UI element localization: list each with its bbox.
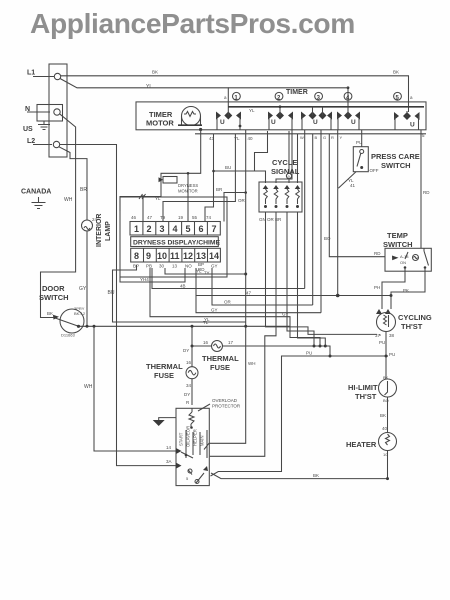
svg-text:T9: T9 bbox=[160, 215, 166, 220]
svg-text:PH: PH bbox=[374, 285, 380, 290]
svg-text:PU: PU bbox=[306, 351, 312, 356]
wire timer drop T5 bbox=[337, 130, 339, 189]
wire heater to bottom bbox=[387, 451, 389, 479]
svg-text:PROTECTOR: PROTECTOR bbox=[212, 404, 241, 409]
wire timer drop T1 bbox=[304, 130, 306, 289]
svg-text:BK: BK bbox=[393, 70, 399, 75]
wire YL dryness to motor run bbox=[165, 268, 246, 274]
svg-text:55: 55 bbox=[192, 215, 198, 220]
svg-text:4: 4 bbox=[173, 224, 178, 234]
timer contact U3 bbox=[301, 107, 332, 130]
timer cam 1 bbox=[233, 92, 241, 100]
wire door switch out bbox=[79, 325, 291, 328]
svg-text:19: 19 bbox=[178, 215, 184, 220]
svg-text:BR: BR bbox=[216, 187, 223, 192]
wire temp to cycling right bbox=[391, 269, 425, 309]
wire 43 drop bbox=[205, 134, 214, 222]
timer motor M bbox=[182, 107, 201, 126]
wire BR display pin 7 bbox=[224, 193, 246, 222]
svg-text:16: 16 bbox=[203, 340, 209, 345]
svg-text:RD: RD bbox=[423, 190, 430, 195]
svg-text:WH: WH bbox=[84, 384, 93, 390]
svg-text:YL: YL bbox=[204, 317, 210, 322]
svg-text:L2: L2 bbox=[27, 138, 35, 145]
lamp LS4 bbox=[295, 185, 301, 189]
svg-text:PU: PU bbox=[389, 352, 395, 357]
wire TF2 right bbox=[223, 346, 331, 356]
lamp LS1 bbox=[263, 185, 269, 189]
wire WH N to door switch bbox=[41, 114, 76, 312]
svg-text:8: 8 bbox=[134, 251, 139, 261]
dryness display outer box bbox=[120, 197, 227, 277]
svg-text:AppliancePartsPros.com: AppliancePartsPros.com bbox=[30, 7, 355, 39]
svg-text:BU: BU bbox=[108, 290, 115, 296]
svg-text:YL: YL bbox=[146, 84, 152, 90]
svg-text:13: 13 bbox=[172, 264, 178, 269]
timer contact U2 bbox=[268, 105, 293, 129]
svg-text:GY: GY bbox=[211, 264, 218, 269]
svg-text:ON: ON bbox=[400, 260, 406, 265]
svg-text:INTERIOR: INTERIOR bbox=[96, 214, 103, 247]
svg-text:L1: L1 bbox=[27, 70, 35, 77]
svg-text:7: 7 bbox=[212, 224, 217, 234]
svg-text:YH4: YH4 bbox=[140, 277, 149, 282]
svg-text:43: 43 bbox=[209, 136, 215, 141]
motor start contact bbox=[176, 448, 182, 469]
svg-text:TH'ST: TH'ST bbox=[401, 322, 423, 331]
svg-text:40: 40 bbox=[382, 426, 388, 431]
svg-text:R: R bbox=[186, 400, 190, 405]
motor centrifugal switch bbox=[188, 470, 204, 483]
svg-text:PRESS CARE: PRESS CARE bbox=[371, 152, 420, 161]
svg-text:US: US bbox=[23, 126, 33, 133]
wire cycling 37 to motor bbox=[379, 334, 381, 335]
svg-text:5: 5 bbox=[186, 224, 191, 234]
wire YL drop bbox=[163, 134, 235, 222]
svg-text:B: B bbox=[315, 135, 318, 140]
svg-text:WH: WH bbox=[64, 197, 73, 203]
svg-text:9: 9 bbox=[146, 251, 151, 261]
svg-text:7Y: 7Y bbox=[204, 271, 210, 276]
wire YH4 bbox=[120, 268, 185, 282]
svg-text:BK: BK bbox=[383, 375, 389, 380]
thermal fuse TF2 bbox=[212, 341, 223, 352]
svg-text:3: 3 bbox=[160, 224, 165, 234]
junction YL crossings bbox=[244, 325, 247, 328]
svg-text:11: 11 bbox=[170, 251, 180, 261]
dryness banner bbox=[131, 237, 219, 247]
wire timer drop T4 RD to temp switch bbox=[329, 134, 385, 257]
wire drop to display pin 2 bbox=[142, 197, 144, 222]
svg-text:DY: DY bbox=[183, 348, 189, 353]
svg-text:DRYNESS: DRYNESS bbox=[178, 183, 198, 188]
splice ticks bbox=[139, 194, 146, 199]
timer contact U5 bbox=[394, 95, 425, 138]
overload protector switch bbox=[189, 408, 194, 427]
svg-text:BK: BK bbox=[313, 473, 319, 478]
svg-text:Y: Y bbox=[340, 135, 343, 140]
svg-text:U: U bbox=[220, 119, 225, 126]
ground motor bbox=[159, 418, 176, 420]
junction lamp line bbox=[86, 325, 89, 328]
svg-text:3A: 3A bbox=[166, 459, 172, 464]
svg-text:U: U bbox=[351, 119, 356, 126]
svg-text:NO: NO bbox=[185, 264, 192, 269]
svg-text:74: 74 bbox=[206, 215, 212, 220]
svg-text:47: 47 bbox=[246, 291, 252, 296]
wire BK L1 to timer 5 bbox=[61, 76, 409, 112]
svg-text:4B: 4B bbox=[180, 284, 186, 289]
wire drop to display pin 5 bbox=[187, 173, 189, 221]
svg-text:12: 12 bbox=[183, 251, 193, 261]
wire TF2 left to door wire bbox=[192, 326, 212, 346]
svg-text:YL: YL bbox=[196, 269, 202, 274]
svg-text:LAMP: LAMP bbox=[105, 221, 112, 241]
svg-text:DOOR: DOOR bbox=[42, 284, 65, 293]
cycle signal out 2 to motor bbox=[210, 212, 276, 456]
dryness monitor tag bbox=[163, 177, 177, 184]
svg-text:TH'ST: TH'ST bbox=[355, 392, 377, 401]
wire timer drop T2 bbox=[312, 134, 314, 305]
wire BR L2 branch to interior lamp bbox=[59, 147, 87, 220]
svg-text:SWITCH: SWITCH bbox=[381, 161, 411, 170]
svg-text:40: 40 bbox=[248, 136, 254, 141]
wire RD timer to temp switch top bbox=[420, 130, 422, 249]
svg-text:MOTOR: MOTOR bbox=[146, 119, 174, 128]
svg-text:G: G bbox=[323, 135, 326, 140]
node N bbox=[37, 105, 63, 122]
svg-text:HEATER: HEATER bbox=[346, 440, 377, 449]
svg-text:5: 5 bbox=[186, 476, 189, 481]
svg-text:YL: YL bbox=[234, 136, 240, 141]
cycle signal out 3 bbox=[287, 212, 314, 346]
svg-text:SIGNAL: SIGNAL bbox=[271, 167, 300, 176]
wire hi-limit to heater bbox=[387, 397, 389, 433]
node 9 circled bbox=[286, 173, 291, 178]
svg-text:DRYNESS DISPLAY/CHIME: DRYNESS DISPLAY/CHIME bbox=[133, 240, 221, 247]
svg-text:a: a bbox=[410, 95, 413, 100]
svg-text:START: START bbox=[179, 432, 184, 446]
wire temp to cycling left bbox=[382, 269, 405, 309]
svg-text:SWITCH: SWITCH bbox=[383, 240, 413, 249]
timer cam 2 bbox=[275, 92, 283, 100]
svg-text:DY: DY bbox=[184, 392, 190, 397]
svg-text:PU: PU bbox=[379, 340, 385, 345]
svg-text:WH: WH bbox=[248, 361, 256, 366]
svg-text:PK: PK bbox=[403, 288, 409, 293]
svg-text:BK: BK bbox=[152, 70, 158, 75]
wire N lead bbox=[27, 111, 50, 113]
svg-text:GY: GY bbox=[282, 312, 289, 317]
svg-text:GY: GY bbox=[211, 308, 218, 313]
wire 4B bbox=[152, 268, 305, 289]
interior lamp LAMP1 bbox=[82, 220, 93, 231]
svg-text:BU: BU bbox=[225, 165, 231, 170]
svg-text:THERMAL: THERMAL bbox=[202, 354, 239, 363]
wire BU L2 to motor bbox=[60, 145, 176, 466]
svg-text:D11663: D11663 bbox=[61, 333, 75, 338]
svg-text:TIMER: TIMER bbox=[286, 89, 308, 96]
svg-text:17: 17 bbox=[228, 340, 234, 345]
timer cam 3 bbox=[315, 92, 323, 100]
motor box bbox=[176, 408, 209, 485]
svg-text:1: 1 bbox=[134, 224, 139, 234]
wire YL press care to T5 bbox=[338, 172, 356, 189]
dryness cells 8-14 bbox=[131, 248, 221, 262]
cycle signal out 4 bbox=[298, 212, 326, 346]
svg-text:BK-12: BK-12 bbox=[74, 311, 86, 316]
wire to cycle signal 3 bbox=[288, 131, 290, 183]
svg-text:GN OR BR: GN OR BR bbox=[259, 217, 282, 222]
svg-text:14: 14 bbox=[209, 251, 219, 261]
timer contact U4 bbox=[337, 111, 360, 130]
wire BR to cycle signal 2 bbox=[276, 130, 292, 183]
svg-text:THERMAL: THERMAL bbox=[146, 362, 183, 371]
svg-text:38: 38 bbox=[389, 333, 395, 338]
svg-text:41: 41 bbox=[350, 183, 356, 188]
svg-text:MONITOR: MONITOR bbox=[178, 189, 198, 194]
svg-text:A-18: A-18 bbox=[400, 254, 409, 259]
svg-text:a: a bbox=[224, 95, 227, 100]
wire timer drop T3 bbox=[320, 130, 322, 313]
svg-text:13: 13 bbox=[196, 251, 206, 261]
wire bottom BK motor to heater bbox=[211, 473, 388, 479]
svg-text:CANADA: CANADA bbox=[21, 189, 51, 196]
svg-text:CYCLE: CYCLE bbox=[272, 158, 297, 167]
svg-text:46: 46 bbox=[131, 215, 137, 220]
svg-text:RD: RD bbox=[374, 251, 381, 256]
lamp LS3 bbox=[284, 185, 290, 189]
svg-text:OR: OR bbox=[224, 300, 232, 305]
svg-text:OR: OR bbox=[238, 198, 246, 203]
svg-text:PB: PB bbox=[146, 264, 152, 269]
svg-text:CYCLING: CYCLING bbox=[398, 313, 432, 322]
press care switch SW-PC bbox=[353, 147, 368, 172]
svg-text:BR: BR bbox=[80, 187, 87, 193]
svg-text:HI-LIMIT: HI-LIMIT bbox=[348, 383, 378, 392]
dryness cells 1-7 bbox=[130, 222, 220, 236]
timer cam 5 bbox=[394, 92, 402, 100]
wire OR to cycle signal 4 bbox=[297, 134, 299, 183]
wire PU press care feed bbox=[361, 130, 363, 147]
cycling thermostat bbox=[376, 309, 391, 314]
timer rail below bbox=[195, 133, 426, 135]
svg-text:47: 47 bbox=[147, 215, 153, 220]
svg-text:6: 6 bbox=[199, 224, 204, 234]
svg-text:W: W bbox=[300, 135, 304, 140]
wire cycling to hi-limit bbox=[385, 332, 387, 379]
svg-text:14: 14 bbox=[166, 445, 172, 450]
lamp LS2 bbox=[273, 185, 279, 189]
svg-text:GY: GY bbox=[79, 286, 87, 292]
wire OR bbox=[212, 268, 313, 305]
svg-text:OVERLOAD: OVERLOAD bbox=[212, 398, 238, 403]
wire PU cycling to centrifugal bbox=[211, 356, 389, 476]
svg-text:BO: BO bbox=[324, 236, 331, 241]
timer box bbox=[136, 102, 426, 130]
junction timer T52 drop bbox=[120, 130, 201, 211]
svg-text:SWITCH: SWITCH bbox=[39, 293, 69, 302]
wire L1 lead bbox=[33, 76, 54, 78]
svg-text:U: U bbox=[271, 119, 276, 126]
svg-text:R: R bbox=[331, 135, 334, 140]
svg-text:U: U bbox=[313, 119, 318, 126]
wire L2 lead bbox=[33, 144, 52, 146]
svg-text:16: 16 bbox=[186, 360, 192, 365]
svg-text:YL: YL bbox=[249, 108, 255, 113]
svg-text:U: U bbox=[410, 122, 415, 129]
svg-text:PU: PU bbox=[356, 140, 362, 145]
wire YL L1 branch to timer 4 bbox=[60, 79, 348, 112]
wire WH door to motor bbox=[94, 326, 176, 451]
svg-text:OFF: OFF bbox=[370, 168, 379, 173]
wire GY2 bbox=[196, 296, 321, 313]
cycle signal out 1 to cycling area bbox=[266, 212, 378, 334]
svg-text:BK: BK bbox=[47, 311, 53, 316]
svg-text:30: 30 bbox=[159, 264, 165, 269]
wire GY staircase to right bbox=[150, 268, 320, 346]
svg-text:TEMP: TEMP bbox=[387, 231, 408, 240]
svg-text:FUSE: FUSE bbox=[210, 363, 230, 372]
svg-text:2: 2 bbox=[147, 224, 152, 234]
wire to temp switch PK bbox=[196, 268, 391, 296]
svg-text:34: 34 bbox=[186, 383, 192, 388]
wire YL2 bbox=[113, 265, 246, 322]
svg-text:BK: BK bbox=[380, 413, 386, 418]
junction BK at U5 bbox=[405, 114, 409, 118]
timer cam 4 bbox=[344, 92, 352, 100]
svg-text:FUSE: FUSE bbox=[154, 371, 174, 380]
timer contact U1 bbox=[216, 111, 241, 130]
wire GY lamp to door switch wire bbox=[86, 231, 88, 326]
wire BU to cycle signal 1 bbox=[214, 131, 268, 183]
terminal block TB1 bbox=[49, 64, 67, 157]
svg-text:10: 10 bbox=[157, 251, 167, 261]
timer bus heavy line bbox=[228, 106, 424, 108]
